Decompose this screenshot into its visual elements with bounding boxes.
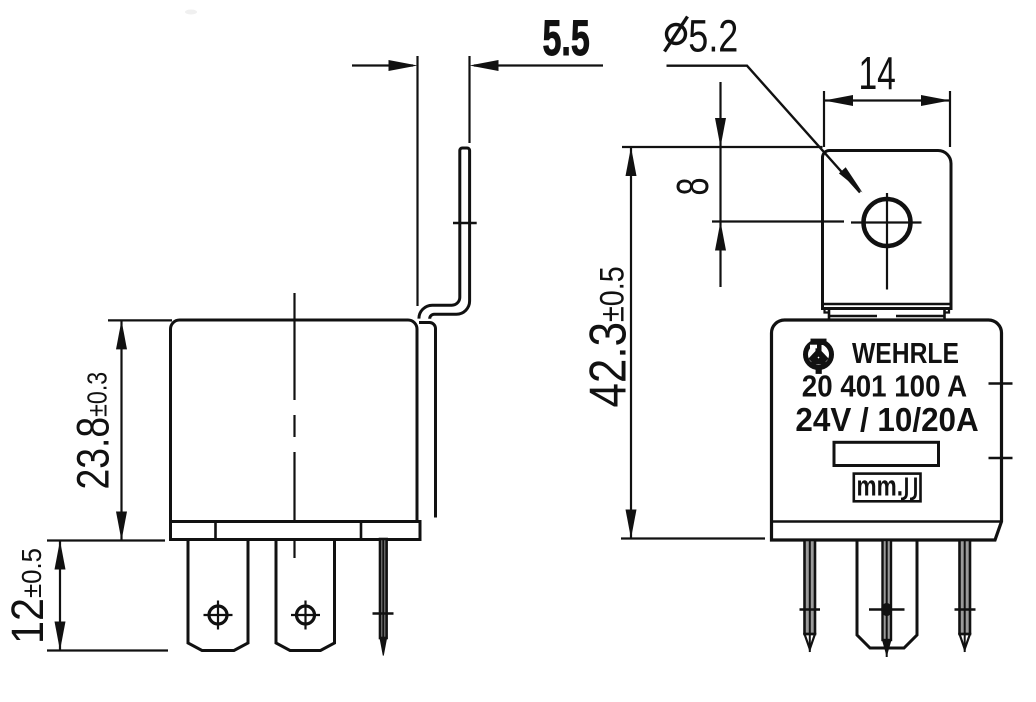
svg-text:5.2: 5.2 (688, 11, 738, 62)
svg-text:8: 8 (669, 177, 718, 195)
svg-text:24V / 10/20A: 24V / 10/20A (795, 401, 978, 438)
svg-text:14: 14 (859, 48, 896, 99)
svg-text:mm.: mm. (857, 469, 904, 502)
svg-text:WEHRLE: WEHRLE (852, 338, 959, 370)
svg-text:5.5: 5.5 (543, 10, 590, 66)
svg-text:20 401 100 A: 20 401 100 A (802, 369, 967, 404)
